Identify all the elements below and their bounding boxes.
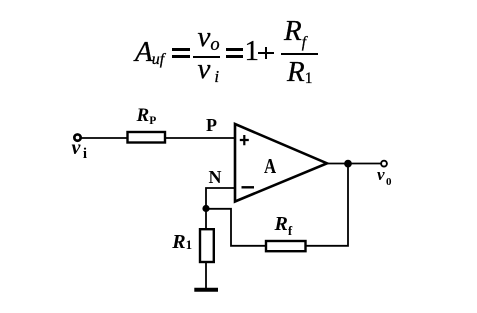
label v_o [377, 166, 392, 183]
wire input to R_P [82, 137, 129, 139]
op-amp + input marking [240, 135, 249, 145]
label R_P [137, 106, 157, 125]
op-amp U1 (A) [235, 124, 327, 202]
wire - input to node N [206, 188, 235, 209]
label v_i [72, 138, 88, 158]
label R_1 [172, 232, 192, 252]
wire Rf to output node [306, 164, 348, 246]
junction node N [202, 205, 209, 212]
resistor R1 [200, 229, 214, 262]
resistor R_P [128, 132, 166, 143]
input terminal v_i [74, 134, 80, 140]
output terminal v_o [381, 161, 387, 167]
junction output node [344, 160, 352, 168]
wire R_P to + input, node P [166, 137, 235, 139]
wire op-amp output [327, 163, 381, 165]
resistor Rf [266, 241, 306, 251]
wire R1 to ground [205, 262, 207, 288]
label R_f [275, 214, 293, 234]
label node N [209, 168, 222, 186]
op-amp - input marking [242, 186, 255, 188]
label op-amp A [264, 156, 276, 177]
ground [194, 288, 218, 292]
wire node N to R1 [205, 209, 207, 230]
wire node N to feedback branch [206, 209, 266, 246]
label node P [206, 116, 217, 134]
formula A_uf = v_o / v_i = 1 + R_f / R_1 [135, 38, 165, 67]
